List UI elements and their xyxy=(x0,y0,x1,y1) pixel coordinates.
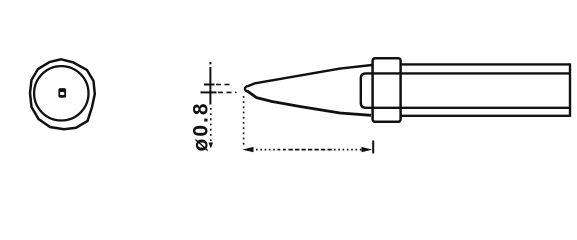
length dimension right extension tick xyxy=(372,141,374,154)
diameter dimension dotted tail with down arrow xyxy=(209,108,214,149)
tip front view inner circle xyxy=(34,66,88,120)
tip front view center ring xyxy=(58,88,66,98)
length dimension dotted line xyxy=(256,149,362,151)
tip drop dotted line xyxy=(243,96,245,147)
cone bottom edge xyxy=(247,91,371,116)
tip front view outer polygon xyxy=(30,59,95,129)
sleeve rounded rect xyxy=(361,73,378,107)
inner barrel top line xyxy=(378,72,569,74)
barrel outer top line xyxy=(401,63,570,65)
barrel right end xyxy=(569,63,571,116)
collar rectangle xyxy=(373,58,401,122)
barrel outer bottom line xyxy=(401,115,570,117)
cone top edge xyxy=(247,65,372,86)
diameter extension tick upper xyxy=(204,84,233,86)
diameter extension tick lower xyxy=(201,91,237,93)
length dimension right arrow xyxy=(362,147,373,152)
svg-text:ø0.8: ø0.8 xyxy=(190,101,213,151)
diameter dimension line vertical xyxy=(209,62,211,105)
length dimension left arrow xyxy=(242,147,253,152)
cone tip blunt end xyxy=(245,86,248,92)
inner barrel bottom line xyxy=(378,107,569,109)
